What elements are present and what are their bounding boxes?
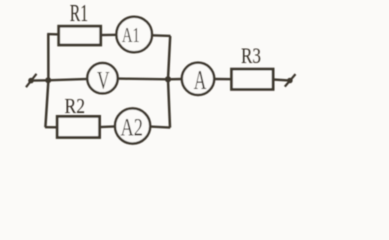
resistor R3 [232,69,274,89]
wire: voltmeter to node B [118,77,169,80]
wire: R3 to right terminal [273,78,288,81]
svg-text:A1: A1 [122,23,140,47]
wire: R2 to ammeter A2 [100,125,116,128]
svg-text:A2: A2 [121,115,143,142]
terminal T1 (left input probe) [26,74,37,87]
wire: ammeter A to R3 [214,78,232,81]
wire: R1 to ammeter A1 [100,34,117,37]
node A (left junction dot) [45,77,51,83]
resistor R2 [57,116,99,137]
svg-text:R3: R3 [241,44,261,68]
resistor R1 [59,26,101,45]
wire: right vertical riser (top branch to bottom branch) [168,36,170,128]
node B (right junction dot) [165,76,171,82]
wire: A2 to right vertical riser [150,127,170,128]
wire: left terminal to node A [31,79,48,82]
wire: A1 to right vertical riser [152,34,171,37]
wire: left vertical riser (top branch to bottom branch) [45,34,48,127]
wire: node B to ammeter A [168,78,182,81]
voltmeter V body [87,63,117,93]
ammeter A1 body [116,17,152,53]
ammeter A2 body [115,108,150,143]
wire: bottom branch, riser to R2 [45,126,59,129]
svg-text:A: A [194,65,207,95]
terminal T2 (right output probe) [285,74,296,87]
svg-text:R1: R1 [70,0,88,27]
wire: middle branch, node A to voltmeter [48,79,88,80]
svg-text:V: V [97,67,110,94]
ammeter A body [182,63,214,95]
svg-text:R2: R2 [65,95,86,118]
wire: top branch, riser to R1 [47,33,60,36]
